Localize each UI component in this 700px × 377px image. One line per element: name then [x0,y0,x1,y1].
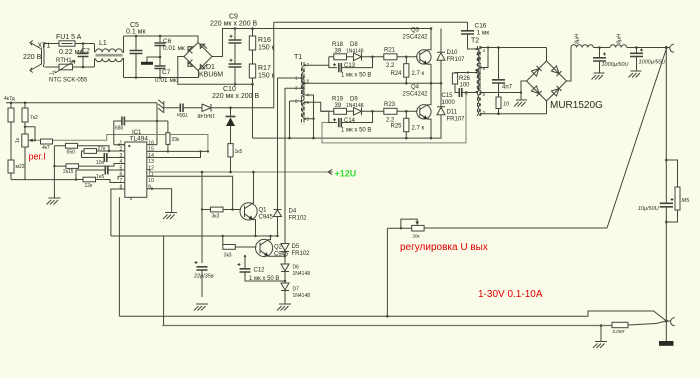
svg-text:1N4148: 1N4148 [346,49,364,55]
svg-text:R23: R23 [384,102,396,108]
svg-text:2: 2 [120,147,123,153]
svg-text:2SC4242: 2SC4242 [403,35,429,41]
svg-text:22μ/35в: 22μ/35в [193,274,214,280]
svg-text:C14: C14 [344,118,356,124]
svg-text:C6: C6 [163,38,172,45]
svg-text:L1: L1 [99,40,107,47]
svg-text:2.7 к: 2.7 к [412,71,425,77]
svg-text:MUR1520G: MUR1520G [550,100,603,111]
svg-text:D10: D10 [447,50,459,56]
svg-text:D6: D6 [293,265,300,271]
svg-text:10μ/50U: 10μ/50U [638,206,659,212]
svg-text:2.2: 2.2 [386,63,395,69]
svg-text:10: 10 [503,102,510,108]
svg-text:–t°: –t° [49,71,57,77]
svg-text:1N4148: 1N4148 [293,293,311,299]
svg-text:4: 4 [120,159,123,165]
svg-text:9: 9 [148,184,151,190]
svg-text:D4: D4 [289,209,297,215]
svg-text:C13: C13 [344,63,356,69]
svg-text:R18: R18 [332,42,344,48]
svg-text:TL494: TL494 [130,136,149,143]
svg-text:FR102: FR102 [289,216,308,222]
svg-text:C9: C9 [229,14,238,21]
svg-text:2SC4242: 2SC4242 [403,92,429,98]
svg-text:1 мк x 50 В: 1 мк x 50 В [341,73,371,79]
svg-text:C16: C16 [475,23,487,30]
svg-text:R19: R19 [332,97,344,103]
svg-text:1N4148: 1N4148 [346,103,364,109]
svg-text:Q2: Q2 [274,245,283,251]
svg-text:1N4148: 1N4148 [197,112,215,118]
svg-text:C12: C12 [254,268,266,274]
svg-text:1 мк x 50 В: 1 мк x 50 В [249,276,279,282]
svg-text:150 к: 150 к [258,73,276,80]
svg-text:D5: D5 [292,244,300,250]
svg-text:1 мк x 50 В: 1 мк x 50 В [341,128,371,134]
svg-text:Q3: Q3 [411,28,420,34]
svg-text:12к: 12к [85,183,94,189]
svg-text:1-30V 0.1-10A: 1-30V 0.1-10A [478,289,543,300]
svg-text:D7: D7 [293,287,300,293]
svg-text:б50: б50 [67,150,76,156]
svg-text:T1: T1 [294,54,302,61]
svg-text:FR102: FR102 [292,251,311,257]
svg-text:FR107: FR107 [447,117,466,123]
svg-text:0.1 мк: 0.1 мк [126,29,146,36]
svg-text:R26: R26 [459,76,471,82]
svg-text:8μH: 8μH [617,34,623,44]
svg-text:1N4148: 1N4148 [293,271,311,277]
svg-text:R25: R25 [391,124,403,130]
svg-text:R16: R16 [258,37,271,44]
svg-text:R17: R17 [258,65,271,72]
svg-text:100: 100 [460,83,471,89]
svg-text:RTH1: RTH1 [56,58,72,64]
svg-text:0.01 мк: 0.01 мк [163,45,185,52]
svg-text:27к: 27к [98,146,107,152]
svg-text:4к7: 4к7 [42,145,50,151]
svg-text:KBU6M: KBU6M [199,72,223,79]
svg-text:м22: м22 [16,164,25,170]
svg-text:4к7д: 4к7д [4,96,15,102]
svg-text:4n7: 4n7 [502,85,513,91]
svg-text:+12U: +12U [335,169,357,179]
svg-text:D8: D8 [350,42,358,48]
svg-text:D9: D9 [350,97,358,103]
svg-text:0.05R: 0.05R [613,329,626,334]
svg-text:68n: 68n [115,126,124,132]
svg-text:20к: 20к [413,234,420,239]
svg-text:C945: C945 [274,252,289,258]
svg-text:D1: D1 [206,64,215,71]
svg-text:10: 10 [148,178,154,184]
svg-text:NTC SCK-055: NTC SCK-055 [49,78,88,84]
svg-text:Q1: Q1 [259,208,268,214]
svg-text:2к15: 2к15 [63,169,74,175]
svg-text:7к2: 7к2 [30,115,38,121]
svg-text:3к3: 3к3 [212,214,220,220]
svg-text:регулировка U вых: регулировка U вых [400,242,488,253]
svg-text:R21: R21 [384,48,396,54]
svg-text:23к: 23к [172,137,181,143]
svg-text:3к3: 3к3 [224,253,232,259]
svg-text:R24: R24 [391,71,403,77]
svg-text:FU1 5 A: FU1 5 A [56,34,82,41]
svg-text:16: 16 [148,140,154,146]
svg-text:220 В: 220 В [23,54,42,61]
svg-text:М5: М5 [682,198,691,204]
svg-text:8μH: 8μH [575,34,581,44]
svg-text:D11: D11 [447,110,458,116]
svg-text:1000: 1000 [442,100,456,106]
svg-text:C15: C15 [442,93,454,99]
svg-text:1к: 1к [15,137,21,143]
svg-text:39: 39 [335,103,342,109]
svg-text:12: 12 [148,165,154,171]
svg-text:FR107: FR107 [447,57,466,63]
svg-text:150 к: 150 к [258,45,276,52]
svg-text:0.01 мк: 0.01 мк [155,77,177,84]
svg-text:7: 7 [120,178,123,184]
svg-text:T2: T2 [471,38,479,45]
svg-text:C945: C945 [259,215,274,221]
svg-text:700п: 700п [177,111,188,117]
svg-text:13: 13 [148,159,154,165]
svg-text:39: 39 [335,49,342,55]
svg-text:1к5: 1к5 [235,149,243,155]
svg-text:2.7 к: 2.7 к [412,126,425,132]
svg-text:1 мк: 1 мк [477,30,490,37]
svg-text:1000μ/50U: 1000μ/50U [602,62,629,68]
svg-text:10n: 10n [96,160,105,166]
svg-text:0.22 мк: 0.22 мк [59,49,83,56]
svg-text:C7: C7 [162,69,171,76]
svg-text:рег.I: рег.I [29,152,46,162]
svg-text:C10: C10 [223,86,236,93]
svg-text:Q4: Q4 [411,85,420,91]
svg-text:220 мк x 200 В: 220 мк x 200 В [210,21,258,28]
